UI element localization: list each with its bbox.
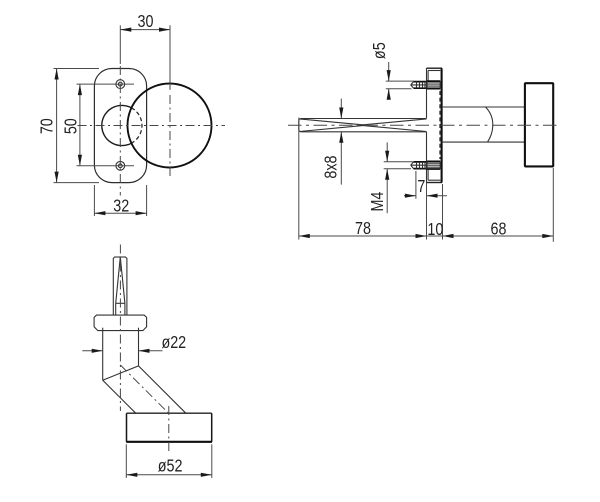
dimension 78 (spindle length) bbox=[299, 118, 427, 240]
svg-text:68: 68 bbox=[491, 220, 507, 239]
rosette plate inner step line (side view) bbox=[427, 71, 429, 181]
dimension 30 (top) bbox=[120, 13, 170, 90]
knob vertical centerline (bottom view) bbox=[168, 406, 170, 453]
knob vertical centerline (front view) bbox=[169, 95, 171, 176]
knob circle (front view) bbox=[128, 84, 212, 168]
dimension 68 (knob length) bbox=[443, 168, 554, 242]
neck hole circle solid arc (front view) bbox=[102, 105, 132, 145]
dimension ø52 (knob) bbox=[126, 444, 212, 478]
screw hole top (front view) bbox=[116, 80, 125, 89]
svg-text:50: 50 bbox=[62, 118, 81, 134]
svg-text:78: 78 bbox=[355, 220, 371, 239]
dimension 7 (screw protrusion) bbox=[404, 171, 447, 240]
spindle taper lines (bottom view) bbox=[116, 257, 125, 315]
svg-text:ø22: ø22 bbox=[161, 334, 186, 353]
collar flange (bottom view) bbox=[94, 315, 147, 331]
bend diagonal centerline (bottom view) bbox=[120, 365, 168, 413]
rosette plate bottom edge (side view) bbox=[427, 180, 443, 182]
spindle vertical centerline (bottom view) bbox=[119, 245, 121, 412]
screw M4 bottom (side view) bbox=[411, 161, 441, 169]
knob head (bottom view) bbox=[126, 413, 212, 442]
rosette plate left face (side view) bbox=[426, 68, 428, 182]
dimension 70 (left outer) bbox=[38, 69, 99, 183]
neck bend silhouette arc (side view) bbox=[486, 107, 493, 142]
rosette plate outline (front view) bbox=[94, 69, 146, 183]
neck cylinder (side view) bbox=[442, 107, 525, 142]
svg-text:70: 70 bbox=[38, 118, 57, 134]
svg-text:8x8: 8x8 bbox=[322, 155, 341, 178]
plate vertical centerline (front view) bbox=[119, 66, 121, 196]
dimension 50 (screw spacing) bbox=[62, 84, 134, 166]
horizontal centerline (side view) bbox=[288, 124, 558, 126]
rosette plate top edge (side view) bbox=[427, 68, 443, 70]
screw hole bottom (front view) bbox=[116, 161, 125, 170]
dimension 10 (plate thickness) bbox=[427, 184, 444, 240]
spindle taper cross lines (side view) bbox=[300, 119, 427, 132]
svg-text:7: 7 bbox=[417, 178, 425, 197]
neck bent section (bottom view) bbox=[103, 366, 186, 413]
horizontal centerline (front view) bbox=[78, 125, 226, 127]
square spindle bar (side view) bbox=[299, 119, 427, 132]
neck bend miter line (bottom view) bbox=[103, 366, 139, 380]
dimension 32 (bottom) bbox=[94, 185, 146, 216]
dimension 8x8 (spindle) bbox=[322, 99, 343, 185]
svg-text:32: 32 bbox=[113, 197, 129, 216]
rosette plate right face (side view) bbox=[441, 68, 443, 182]
neck straight section (bottom view) bbox=[103, 328, 139, 381]
spindle shaft (bottom view) bbox=[113, 257, 127, 315]
dimension ø5 (screw head) bbox=[371, 42, 414, 99]
dimension ø22 (neck) bbox=[82, 334, 186, 353]
svg-text:M4: M4 bbox=[369, 192, 388, 212]
neck hole circle hidden arc behind knob (front view) bbox=[131, 108, 142, 143]
svg-text:ø5: ø5 bbox=[371, 42, 390, 59]
dimension M4 (screw thread) bbox=[369, 142, 414, 213]
knob head (side view) bbox=[525, 83, 553, 166]
svg-text:ø52: ø52 bbox=[158, 457, 183, 476]
svg-text:30: 30 bbox=[138, 13, 154, 32]
screw M4 top (side view) bbox=[411, 81, 441, 89]
svg-text:10: 10 bbox=[427, 221, 443, 240]
rosette plate hidden hole line (side view) bbox=[439, 91, 441, 159]
